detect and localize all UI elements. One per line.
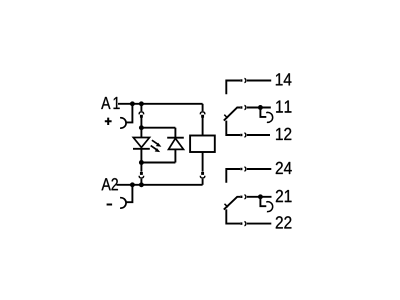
- clamp plus terminal: [120, 118, 126, 128]
- terminal label 12: [276, 128, 291, 140]
- switch arm tick group 2: [225, 204, 228, 207]
- terminal label 24: [276, 162, 292, 174]
- terminal label 14: [276, 73, 292, 85]
- wire diode branch bottom: [174, 149, 176, 162]
- pin contact 11: [240, 106, 242, 108]
- wire contact 24 fixed bracket: [226, 169, 240, 183]
- wire A1 to plus clamp: [126, 104, 132, 123]
- socket contact 11: [244, 106, 246, 110]
- node led bottom junction: [139, 160, 144, 165]
- wire diode branch top: [174, 128, 176, 137]
- wire 21 lead: [247, 196, 272, 198]
- socket contact coil bottom: [200, 176, 204, 178]
- socket contact led bottom: [139, 176, 143, 178]
- wire 21 to clamp: [260, 197, 266, 206]
- wire 12 lead: [247, 134, 270, 136]
- switch arm contact group 2: [224, 197, 240, 210]
- node led top junction: [139, 125, 144, 130]
- socket contact 21: [244, 195, 246, 199]
- wire A1 rail: [118, 103, 203, 105]
- clamp minus terminal: [120, 198, 126, 208]
- pin contact coil bottom: [201, 172, 204, 175]
- switch arm tick group 1: [224, 115, 227, 118]
- wire 11 to clamp: [260, 108, 266, 117]
- pin contact led top: [140, 115, 143, 118]
- node 21 junction: [258, 194, 263, 199]
- wire contact 22 fixed bracket: [226, 209, 240, 223]
- terminal label 22: [276, 216, 292, 228]
- socket contact 24: [244, 167, 246, 171]
- wire 22 lead: [247, 223, 271, 225]
- socket contact 14: [244, 79, 246, 83]
- wire 24 lead: [247, 168, 271, 170]
- terminal label A2: [101, 178, 117, 190]
- wire contact 12 fixed bracket: [226, 121, 240, 135]
- pin contact 12: [240, 134, 242, 136]
- pin contact 24: [240, 168, 242, 170]
- wire coil down: [202, 152, 204, 172]
- pin contact led bottom: [140, 172, 143, 175]
- socket contact 22: [244, 222, 246, 226]
- plus sign: [105, 118, 112, 125]
- wire led junction down: [140, 163, 142, 172]
- socket contact coil top: [200, 112, 204, 115]
- clamp terminal 11: [266, 112, 272, 122]
- pin contact 14: [240, 79, 242, 81]
- wire A2 rail: [116, 184, 202, 186]
- node 11 junction: [258, 105, 263, 110]
- wire contact 14 fixed bracket: [226, 81, 240, 95]
- wire socket to A2 rail: [140, 179, 142, 185]
- switch arm contact group 1: [224, 108, 240, 121]
- wire A1 to coil socket: [202, 104, 204, 111]
- clamp terminal 21: [266, 202, 272, 212]
- wire parallel bottom rail: [141, 162, 175, 164]
- wire A1 to led socket: [140, 104, 142, 111]
- minus sign: [107, 204, 113, 206]
- socket contact 12: [244, 133, 246, 137]
- junction dot A1-plus: [130, 101, 135, 106]
- LED emission arrow 2: [151, 146, 161, 153]
- junction dot A2-led: [139, 182, 144, 187]
- wire 14 lead: [247, 80, 271, 82]
- LED D1 triangle: [133, 138, 149, 148]
- pin contact 22: [240, 222, 242, 224]
- pin contact 21: [240, 196, 242, 198]
- pin contact coil top: [201, 115, 204, 118]
- diode V1 cathode bar: [167, 137, 184, 139]
- socket contact led top: [139, 112, 143, 115]
- diode V1 triangle: [169, 138, 184, 149]
- wire socket to A2 corner: [202, 179, 204, 185]
- junction dot A1-led: [139, 101, 144, 106]
- wire pin to coil: [202, 117, 204, 135]
- junction dot A2-minus: [130, 182, 135, 187]
- LED D1 cathode bar: [133, 148, 150, 150]
- wire pin to led junction: [140, 117, 142, 127]
- wire 11 lead: [247, 107, 271, 109]
- relay coil K1: [190, 136, 215, 153]
- terminal label A1: [101, 97, 119, 109]
- wire parallel top rail: [141, 127, 175, 129]
- wire junction to led anode: [140, 128, 142, 138]
- LED emission arrow 1: [152, 140, 162, 147]
- terminal label 11: [276, 101, 291, 113]
- wire A2 to minus clamp: [126, 185, 132, 202]
- terminal label 21: [276, 190, 292, 202]
- wire led cathode down: [140, 149, 142, 163]
